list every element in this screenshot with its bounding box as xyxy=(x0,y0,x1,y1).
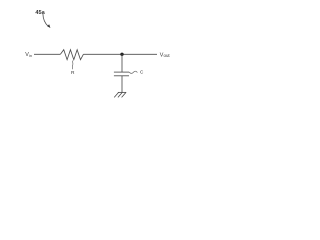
leader arrow from 45a xyxy=(43,14,48,27)
squiggle leader to R label xyxy=(71,61,74,70)
ground xyxy=(114,92,126,97)
svg-text:45a: 45a xyxy=(35,10,45,16)
squiggle leader to C label xyxy=(129,71,137,73)
node junction dot xyxy=(120,53,123,56)
resistor R xyxy=(60,50,83,60)
capacitor C top plate xyxy=(114,71,129,73)
svg-text:in: in xyxy=(29,54,32,58)
svg-text:out: out xyxy=(164,53,171,58)
wire left (Vin to resistor) xyxy=(34,53,60,55)
svg-text:R: R xyxy=(71,70,75,76)
wire node to capacitor xyxy=(121,54,123,72)
capacitor C bottom plate xyxy=(114,75,129,77)
wire capacitor to ground xyxy=(121,76,123,93)
wire right (resistor to Vout) xyxy=(83,53,157,55)
